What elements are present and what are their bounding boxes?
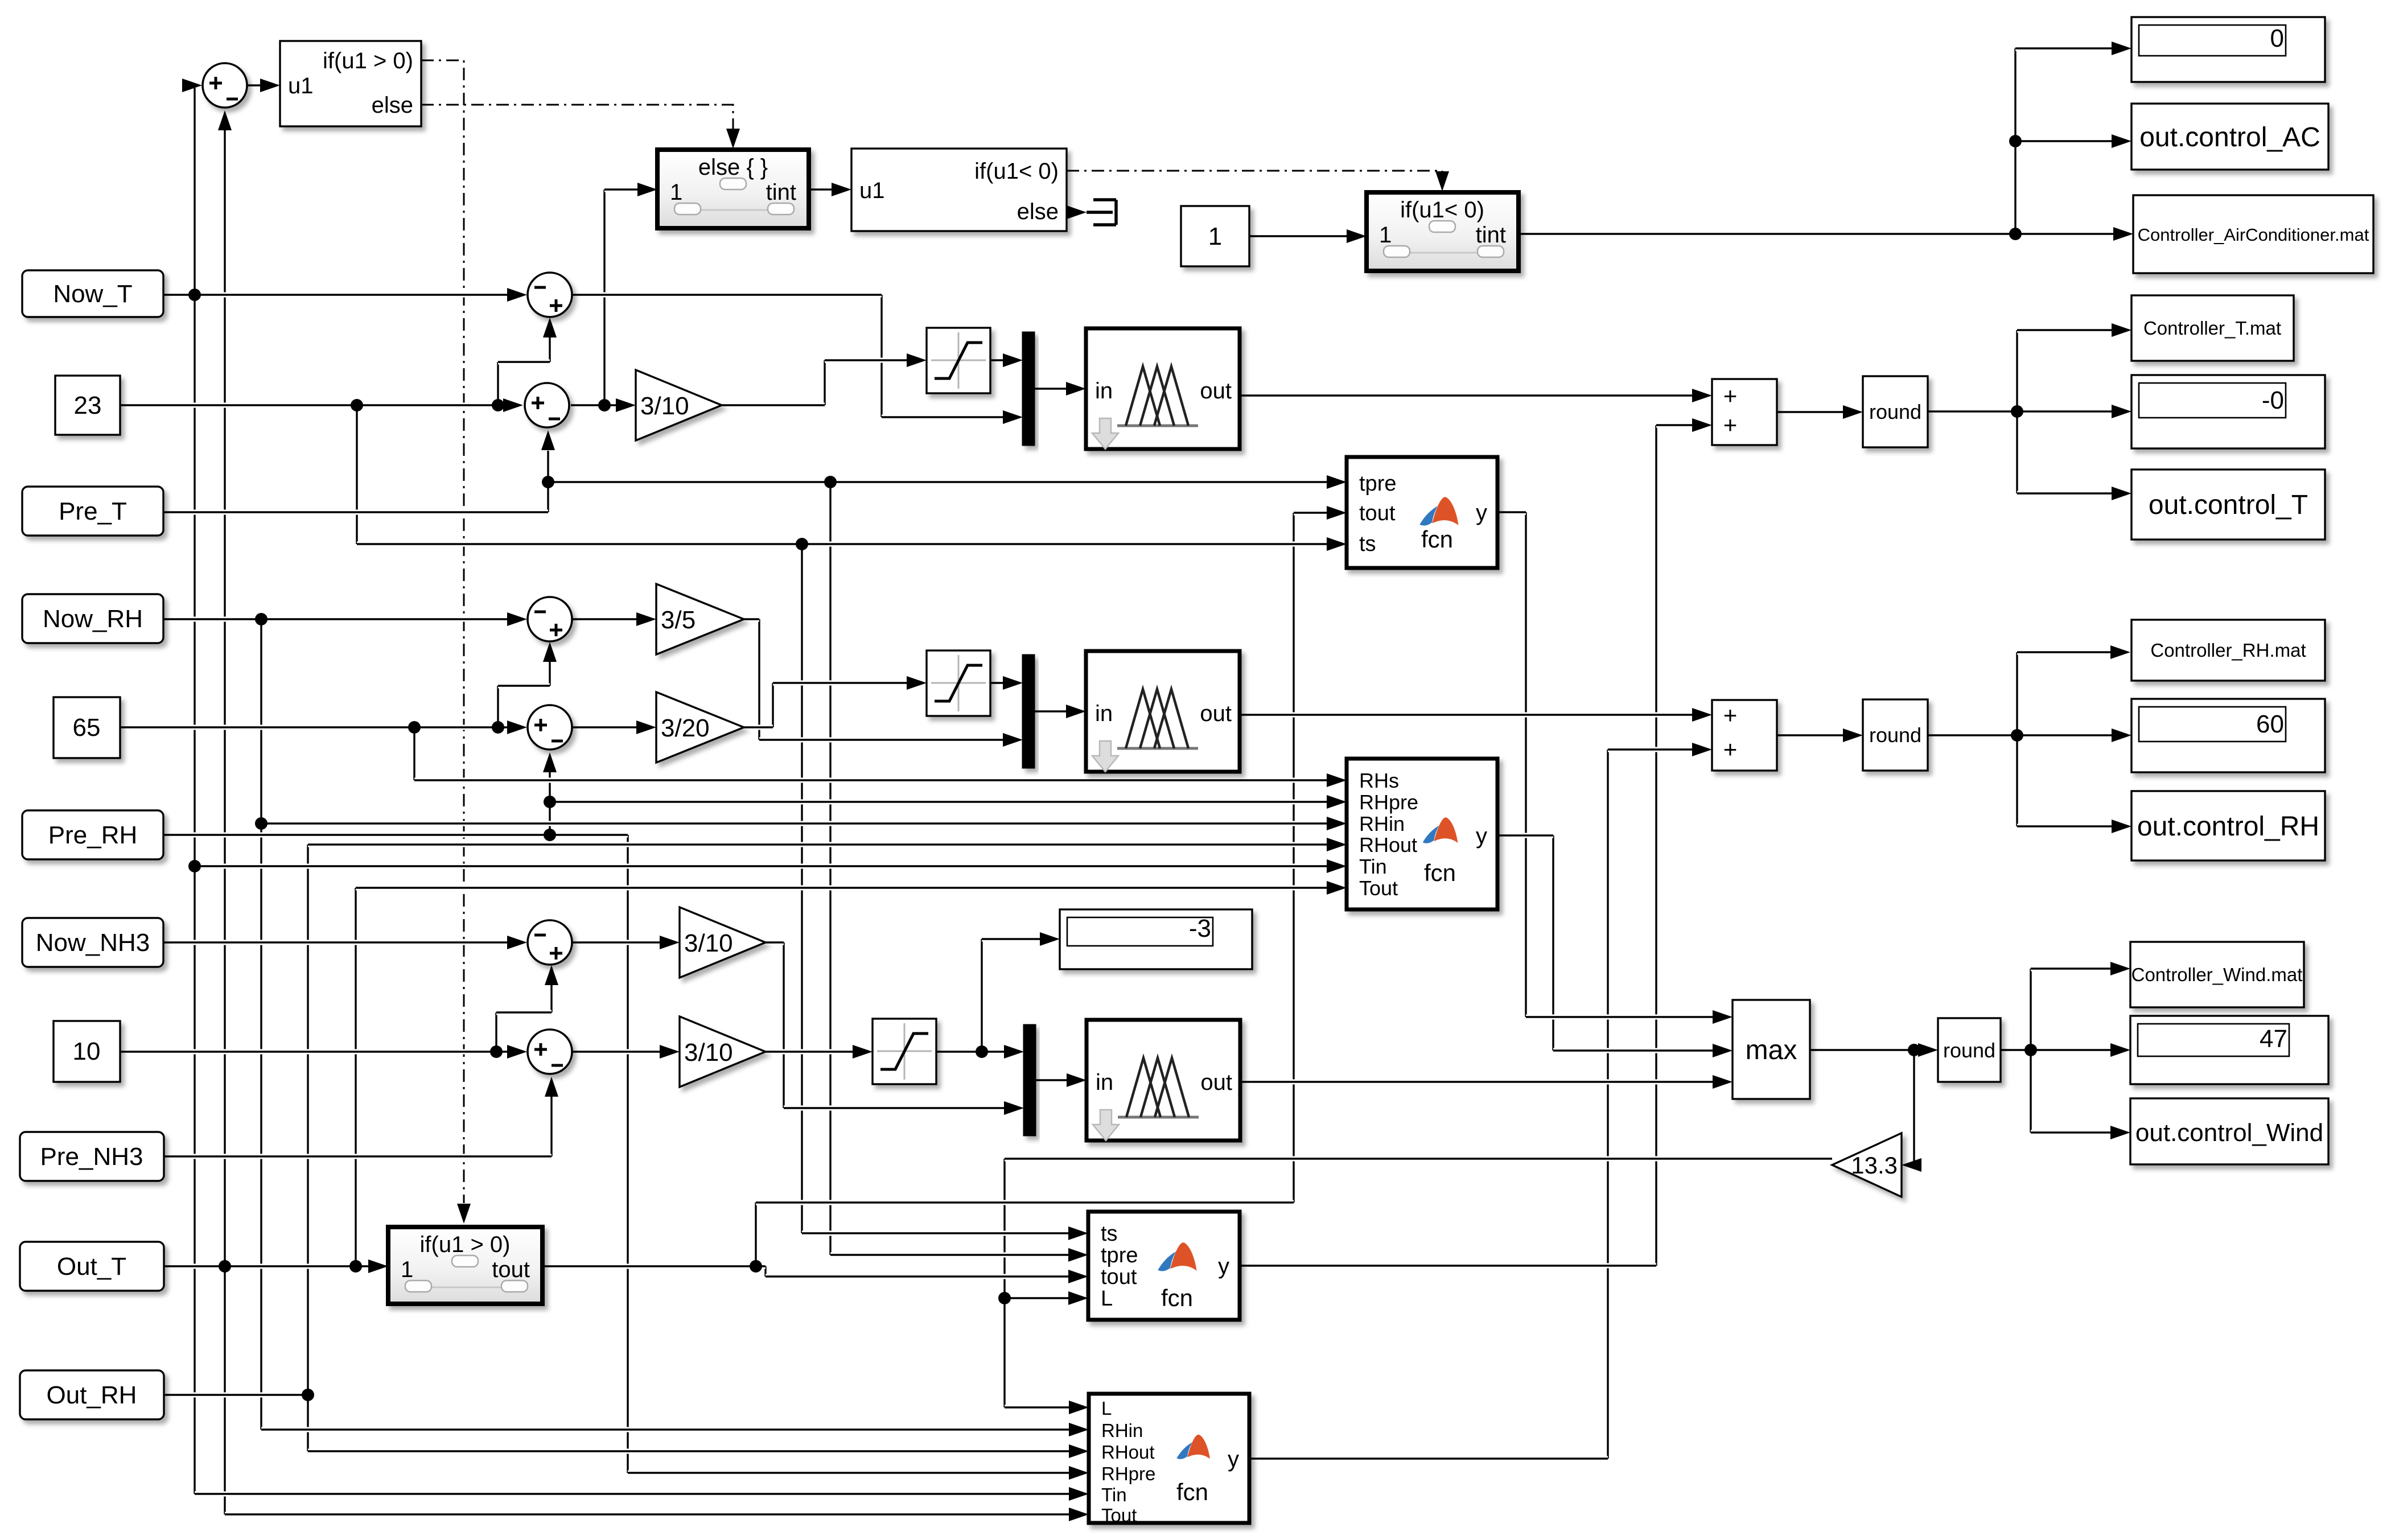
wire Now_RH to S4 [163, 617, 508, 622]
wire Out_T to fcn4 Tout [225, 1512, 1069, 1517]
gain G3 3/20 [656, 692, 744, 763]
wire feedback drop to gain 13.3 [1913, 1050, 1915, 1165]
inport Out_T [20, 1242, 164, 1291]
svg-text:round: round [1869, 723, 1921, 747]
wire Out_RH trunk [307, 845, 308, 1451]
svg-text:Out_T: Out_T [57, 1253, 126, 1280]
wire ts branch to fcn3 [801, 544, 803, 1233]
wire const 65 to S5 [120, 725, 508, 730]
svg-text:ts: ts [1359, 532, 1376, 556]
wire RHout to fcn2 [308, 842, 1327, 847]
svg-text:Tin: Tin [1101, 1484, 1127, 1505]
svg-text:round: round [1869, 400, 1921, 423]
svg-text:out: out [1200, 701, 1232, 726]
svg-text:Tin: Tin [1359, 855, 1387, 878]
add block Add2 [1712, 700, 1777, 771]
svg-text:out: out [1200, 1070, 1232, 1095]
MATLAB function block fcn1 T-model [1347, 457, 1497, 568]
svg-text:y: y [1476, 500, 1487, 525]
svg-text:3/5: 3/5 [661, 606, 696, 634]
svg-text:fcn: fcn [1421, 526, 1453, 553]
action subsystem ELSE1 [657, 150, 809, 228]
wire riser to else subsystem [603, 190, 605, 405]
sum S3 [525, 383, 569, 427]
wire G4 out to mux3 lower [766, 940, 784, 945]
svg-text:13.3: 13.3 [1851, 1152, 1898, 1179]
add block Add1 [1712, 379, 1777, 445]
svg-text:Controller_RH.mat: Controller_RH.mat [2150, 640, 2306, 661]
fuzzy logic controller FUZZY2 [1086, 651, 1240, 772]
wire const 10 to S7 [120, 1049, 508, 1055]
wire Out_RH line [164, 1393, 308, 1398]
svg-text:65: 65 [73, 714, 101, 742]
wire fcn4 y to Add2 [1249, 1456, 1608, 1461]
inport Pre_T [22, 487, 163, 536]
wire 23 branch down to ts [356, 405, 357, 544]
action subsystem IFSUB3 [388, 1227, 542, 1304]
svg-text:+: + [1723, 702, 1738, 728]
wire fcn2 y to max [1497, 833, 1553, 838]
svg-text:47: 47 [2260, 1025, 2287, 1053]
sum S5 [528, 705, 572, 750]
wire round1 fanout [1928, 409, 2017, 414]
wire Now_T branch to Sum S1 [185, 83, 195, 88]
wire gain G1 out to saturation [722, 403, 825, 408]
to-workspace out.control_RH [2131, 791, 2325, 860]
svg-text:RHs: RHs [1359, 769, 1399, 792]
wire Pre_T line [163, 510, 548, 515]
inport Pre_RH [22, 810, 163, 859]
svg-text:if(u1 > 0): if(u1 > 0) [420, 1232, 511, 1257]
MATLAB function block fcn2 RH-model [1347, 759, 1497, 909]
sum S4 [528, 597, 572, 641]
svg-text:L: L [1101, 1287, 1113, 1311]
svg-text:RHin: RHin [1359, 812, 1405, 835]
round block round3 [1938, 1018, 2001, 1082]
display Display-0 [2131, 375, 2325, 448]
terminator [1087, 200, 1116, 225]
wire G5 out to saturation3 [766, 1049, 853, 1055]
wire action IF1.else to else-subsystem (dash-dot) [421, 105, 733, 131]
svg-text:fcn: fcn [1176, 1479, 1208, 1505]
svg-text:Pre_RH: Pre_RH [48, 821, 138, 849]
svg-text:else { }: else { } [698, 155, 768, 180]
wire mux1 to fuzzy1 [1034, 386, 1067, 392]
sum S1 [203, 63, 247, 108]
if block IF1 [280, 41, 421, 126]
MATLAB function block fcn3 ts-model [1088, 1212, 1240, 1320]
wire Out_T line to if-subsystem [164, 1264, 369, 1269]
svg-text:0: 0 [2270, 24, 2284, 52]
wire Sum S1 to IF1 [248, 83, 261, 88]
wire Now_RH trunk [260, 619, 262, 1430]
svg-text:-3: -3 [1189, 915, 1211, 942]
svg-text:RHpre: RHpre [1359, 790, 1418, 814]
wire round3 fanout [2001, 1048, 2031, 1053]
svg-text:u1: u1 [859, 178, 885, 203]
wire mux2 to fuzzy2 [1034, 709, 1067, 714]
svg-text:60: 60 [2256, 710, 2284, 738]
mux MUX3 [1023, 1024, 1036, 1136]
wire Sum S2 out to mux1 [573, 293, 882, 298]
wire fuzzy3 out to max [1240, 1080, 1713, 1085]
saturation SAT1 [927, 328, 990, 393]
mux MUX1 [1022, 332, 1035, 446]
wire Now_T trunk vertical [194, 85, 195, 1494]
wire mux3 to fuzzy3 [1035, 1078, 1067, 1083]
wire RHout to fcn4 [308, 1449, 1069, 1454]
gain 13.3 (left pointing) [1832, 1133, 1902, 1197]
svg-text:out: out [1200, 378, 1232, 403]
wire 65 branch to RHs [413, 727, 415, 780]
wire S4 out to gain 3/5 [573, 617, 637, 622]
svg-text:RHout: RHout [1359, 833, 1417, 857]
wire Pre_NH3 line [164, 1154, 552, 1159]
to-file Controller_AirConditioner.mat [2133, 195, 2373, 273]
constant 65 [54, 697, 120, 758]
svg-text:Now_NH3: Now_NH3 [36, 929, 150, 957]
svg-text:1: 1 [670, 180, 682, 205]
svg-text:3/10: 3/10 [684, 1039, 733, 1067]
svg-text:out.control_AC: out.control_AC [2139, 122, 2320, 153]
wire 23 riser to S2 minus input [497, 362, 499, 405]
wire else subsystem tint to IF2 [809, 187, 832, 192]
wire S2 out drop [880, 295, 882, 417]
svg-text:Controller_T.mat: Controller_T.mat [2143, 318, 2281, 339]
wire round2 fanout [1928, 733, 2017, 738]
wire gain 3/5 out to mux2 lower [744, 617, 759, 622]
svg-text:Tout: Tout [1359, 876, 1398, 900]
svg-text:Out_RH: Out_RH [47, 1381, 137, 1409]
svg-text:in: in [1096, 1070, 1113, 1095]
wire gain 3/20 to saturation2 [744, 725, 773, 730]
wire action IF1.if to subsystem tout (dash-dot) [421, 60, 464, 1203]
saturation SAT2 [927, 650, 990, 716]
fuzzy logic controller FUZZY3 [1087, 1020, 1240, 1140]
wire 65 riser to S4 plus [497, 686, 499, 727]
svg-text:if(u1< 0): if(u1< 0) [1400, 197, 1484, 223]
inport Now_T [22, 270, 163, 317]
svg-text:Controller_Wind.mat: Controller_Wind.mat [2131, 964, 2303, 985]
wire Out_T trunk x=395 [224, 130, 225, 1514]
to-workspace out.control_AC [2131, 104, 2328, 170]
MATLAB function block fcn4 L-model [1089, 1394, 1249, 1523]
wire Out_T riser to fcn2 Tout [355, 888, 356, 1266]
svg-text:y: y [1476, 823, 1487, 849]
svg-text:-0: -0 [2262, 386, 2284, 414]
inport Out_RH [20, 1370, 164, 1419]
svg-text:y: y [1218, 1254, 1229, 1279]
wire RHin line to fcn2 [261, 821, 1327, 826]
wire action IF2.else to terminator (dash-dot) [1067, 212, 1083, 213]
svg-text:tout: tout [1359, 501, 1396, 525]
svg-text:RHin: RHin [1101, 1420, 1143, 1441]
svg-text:fcn: fcn [1424, 859, 1456, 886]
svg-text:Pre_T: Pre_T [59, 497, 127, 525]
wire gain 13.3 out to L inputs [1005, 1156, 1832, 1162]
inport Now_RH [22, 594, 163, 643]
svg-text:tint: tint [1476, 223, 1506, 248]
constant 10 [54, 1021, 120, 1082]
svg-text:RHpre: RHpre [1101, 1463, 1155, 1484]
svg-text:3/20: 3/20 [661, 714, 710, 742]
gain G4 3/10 [680, 907, 766, 978]
svg-text:out.control_T: out.control_T [2149, 490, 2308, 520]
wire ts branch into fcn3 [802, 1231, 1069, 1236]
svg-text:if(u1< 0): if(u1< 0) [974, 159, 1059, 184]
wire tout branch across [756, 1200, 1294, 1205]
sum S6 [528, 920, 572, 965]
svg-text:in: in [1095, 378, 1113, 403]
wire tpre branch to fcn3 [829, 482, 831, 1255]
svg-text:1: 1 [1208, 223, 1222, 250]
gain G5 3/10 [680, 1016, 766, 1087]
svg-text:+: + [1723, 382, 1738, 409]
svg-text:Now_RH: Now_RH [43, 605, 143, 633]
svg-text:Pre_NH3: Pre_NH3 [40, 1143, 143, 1171]
wire RHpre line to fcn2 [550, 800, 1327, 805]
wire tout subsystem output [542, 1264, 766, 1269]
svg-text:10: 10 [73, 1037, 101, 1065]
wire Now_T branch to fcn2 Tin [195, 864, 1327, 869]
wire fcn3 y to Add1 [1240, 1263, 1656, 1269]
svg-text:Controller_AirConditioner.mat: Controller_AirConditioner.mat [2138, 225, 2369, 245]
wire saturation2 to mux2 [990, 681, 1003, 686]
fuzzy logic controller FUZZY1 [1086, 328, 1240, 449]
wire Pre_RH riser to S5 [549, 772, 550, 835]
svg-text:else: else [372, 93, 413, 118]
svg-text:RHout: RHout [1101, 1442, 1155, 1463]
svg-text:tpre: tpre [1359, 472, 1396, 496]
svg-text:+: + [1723, 736, 1738, 763]
inport Now_NH3 [22, 918, 163, 967]
wire const 1 to tint subsystem [1249, 234, 1347, 239]
wire fuzzy2 out to Add2 [1240, 713, 1693, 718]
display Display47 [2130, 1016, 2328, 1084]
wire Add1 to round1 [1777, 410, 1843, 415]
mux MUX2 [1022, 654, 1035, 768]
svg-text:23: 23 [74, 392, 102, 419]
saturation SAT3 [873, 1019, 936, 1084]
wire tout riser to fcn1 [1293, 513, 1294, 1203]
svg-text:fcn: fcn [1161, 1284, 1193, 1311]
svg-text:max: max [1746, 1035, 1797, 1065]
svg-text:Tout: Tout [1101, 1505, 1137, 1526]
svg-text:out.control_Wind: out.control_Wind [2135, 1119, 2323, 1147]
display Display-3 [1060, 909, 1252, 969]
wire saturation3 to mux3 [936, 1049, 1005, 1055]
svg-text:in: in [1095, 701, 1113, 726]
to-workspace out.control_T [2131, 470, 2325, 540]
wire S5 out to gain 3/20 [573, 725, 637, 730]
svg-text:u1: u1 [288, 73, 314, 98]
svg-text:tout: tout [492, 1257, 530, 1282]
display Display60 [2131, 699, 2325, 772]
wire const 23 to Sum S3 [120, 403, 504, 408]
wire Add2 to round2 [1777, 733, 1843, 738]
wire tout branch up [755, 1203, 756, 1266]
wire saturation1 to mux1 [990, 358, 1003, 363]
wire Now_T to Sum S2 [163, 293, 508, 298]
gain G1 3/10 [636, 370, 722, 440]
to-file Controller_RH.mat [2131, 620, 2325, 681]
inport Pre_NH3 [20, 1132, 164, 1181]
svg-text:tint: tint [766, 180, 796, 205]
wire Pre_RH drop to fcn4 [627, 835, 628, 1473]
svg-text:3/10: 3/10 [684, 929, 733, 957]
wire action IF2.if to subsystem tint (dash-dot) [1067, 171, 1442, 174]
wire riser to display -3 [981, 939, 982, 1052]
svg-text:tout: tout [1101, 1265, 1137, 1289]
svg-text:Now_T: Now_T [53, 280, 132, 308]
round block round1 [1863, 376, 1928, 447]
wire tpre line to fcn1 [548, 480, 1327, 485]
to-file Controller_Wind.mat [2130, 942, 2304, 1007]
round block round2 [1863, 699, 1928, 771]
display Display0 [2131, 17, 2325, 82]
if block IF2 [851, 149, 1067, 231]
wire Now_NH3 to S6 [163, 940, 508, 945]
wire Sum S3 out to gain 3/10 [571, 403, 616, 408]
svg-text:else: else [1017, 199, 1059, 224]
svg-text:1: 1 [1379, 223, 1392, 248]
wire Now_T branch to fcn4 Tin [195, 1492, 1069, 1497]
svg-text:L: L [1101, 1398, 1112, 1419]
wire fuzzy1 out to Add1 [1240, 393, 1693, 398]
wire tint subsystem to ToFile AC [1519, 232, 2114, 237]
svg-text:tpre: tpre [1101, 1243, 1138, 1267]
wire ts line to fcn1 [357, 542, 1327, 547]
wire 10 riser to S6 plus [495, 1012, 497, 1052]
svg-text:out.control_RH: out.control_RH [2137, 812, 2319, 842]
constant 23 [55, 376, 120, 435]
svg-text:ts: ts [1101, 1222, 1118, 1246]
svg-text:round: round [1943, 1039, 1995, 1062]
action subsystem IFSUB2 [1367, 192, 1519, 271]
wire max out to round3 [1810, 1048, 1919, 1053]
wire S6 out to gain G4 [573, 940, 660, 945]
wire Pre_NH3 riser to S7 [550, 1096, 552, 1156]
wire RHin to fcn4 [261, 1427, 1069, 1432]
wire fcn1 y to max [1497, 510, 1526, 515]
wire S7 out to gain G5 [573, 1049, 660, 1055]
sum S2 [528, 273, 572, 317]
wire Pre_RH line [163, 833, 628, 838]
max block [1733, 1000, 1810, 1099]
to-workspace out.control_Wind [2130, 1098, 2328, 1164]
svg-text:if(u1 > 0): if(u1 > 0) [323, 48, 413, 73]
constant 1 [1181, 206, 1249, 266]
svg-text:+: + [1723, 411, 1738, 438]
svg-text:3/10: 3/10 [640, 392, 689, 420]
gain G2 3/5 [656, 584, 744, 654]
svg-text:y: y [1228, 1447, 1239, 1472]
to-file Controller_T.mat [2131, 295, 2294, 361]
sum S7 [528, 1030, 572, 1074]
wire Pre_T riser to S3 [547, 451, 549, 512]
svg-text:1: 1 [401, 1257, 413, 1282]
